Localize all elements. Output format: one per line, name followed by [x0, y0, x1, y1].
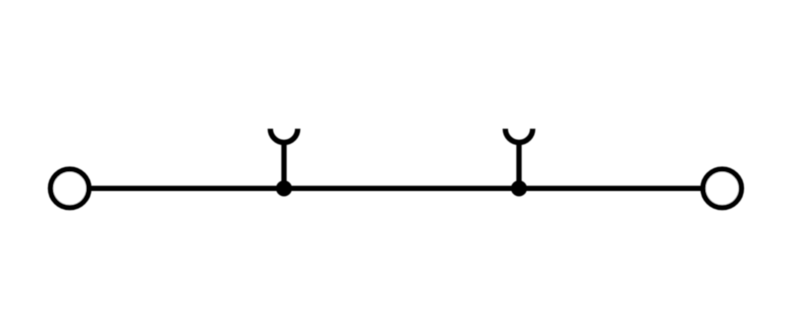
- stem 1: [281, 141, 286, 189]
- terminal circle left: [50, 169, 88, 207]
- junction dot 2: [511, 180, 527, 196]
- socket arc 2: [505, 129, 532, 143]
- terminal circle right: [703, 169, 741, 207]
- socket arc 1: [270, 129, 297, 143]
- junction dot 1: [276, 180, 292, 196]
- wire: [70, 186, 722, 191]
- stem 2: [516, 141, 521, 189]
